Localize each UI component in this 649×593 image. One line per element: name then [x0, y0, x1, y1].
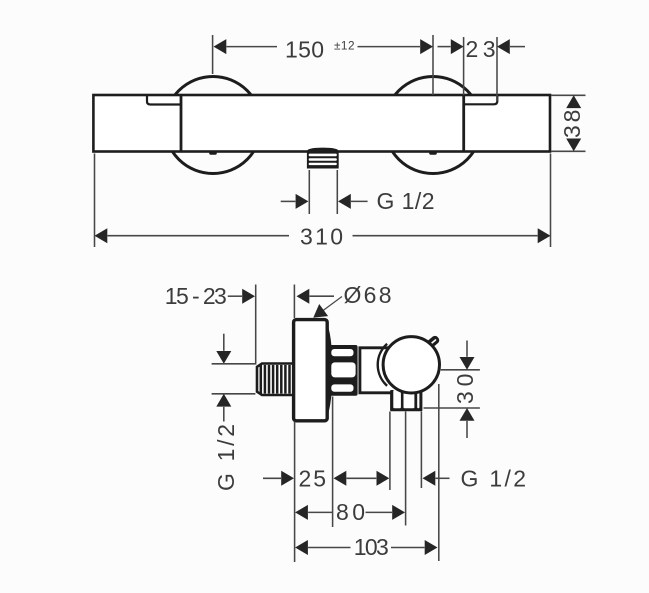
svg-text:G 1/2: G 1/2 [213, 424, 239, 491]
svg-text:±12: ±12 [334, 38, 355, 52]
svg-text:G 1/2: G 1/2 [377, 188, 435, 214]
svg-text:25: 25 [299, 465, 327, 491]
svg-text:Ø68: Ø68 [344, 282, 392, 308]
svg-text:103: 103 [354, 534, 389, 560]
svg-text:150: 150 [285, 37, 324, 63]
svg-text:15 - 23: 15 - 23 [165, 283, 227, 309]
svg-text:G 1/2: G 1/2 [461, 465, 527, 491]
svg-text:310: 310 [300, 223, 343, 249]
